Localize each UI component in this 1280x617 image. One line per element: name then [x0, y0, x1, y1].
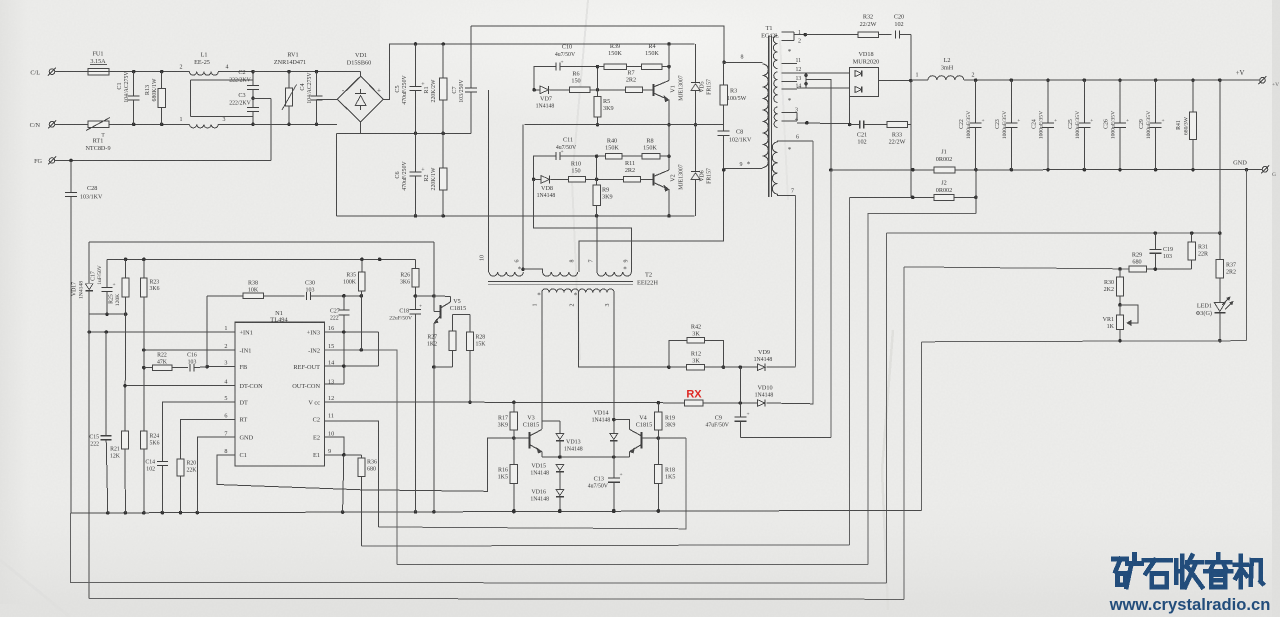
T1 pin7 lead: [778, 194, 796, 195]
capacitor C30: [263, 295, 304, 297]
fuse FU1: [88, 68, 109, 75]
transistor V2 MJE13007: [653, 174, 655, 186]
diode VD5 FR157: [695, 44, 697, 83]
capacitor C23: [1010, 80, 1012, 123]
capacitor C18: [414, 296, 416, 310]
wire mid bus: [336, 132, 470, 134]
wire left drop to bottom bus: [335, 133, 337, 216]
diode VD17: [88, 242, 90, 283]
resistor R9: [593, 185, 600, 205]
terminal AC/L: [49, 69, 55, 75]
wire L line right: [253, 71, 361, 73]
resistor R42 loop: [669, 340, 687, 367]
wire pins 3-4 to snubber: [797, 122, 850, 125]
wire y314 link: [89, 313, 125, 315]
T1 secondary winding 1-2: [773, 35, 777, 68]
wire Vcc RX line: [324, 401, 514, 403]
wire T1 pin6 drop to VD10: [812, 141, 814, 405]
wire bottom right return y341: [921, 341, 1246, 342]
resistor R16: [513, 438, 515, 465]
diode VD6 FR157: [695, 125, 697, 172]
resistor R21: [122, 431, 129, 449]
diode VD7: [532, 88, 536, 92]
resistor R37: [1216, 260, 1223, 278]
capacitor C29: [1155, 80, 1157, 123]
resistor R41: [1192, 80, 1194, 112]
wire pin10 E2: [324, 437, 343, 455]
resistor R38: [207, 295, 243, 297]
wire emitter rail: [542, 456, 630, 458]
wire T2 pin7 to emitter bus: [596, 216, 598, 272]
capacitor C15: [105, 332, 107, 436]
capacitor C13: [613, 457, 615, 478]
resistor R19: [657, 403, 659, 412]
resistor R13: [161, 72, 163, 89]
T1 pin6 lead: [778, 141, 813, 142]
capacitor C27: [343, 296, 345, 310]
resistor R24: [140, 431, 147, 449]
wire pin9 E1: [324, 454, 361, 456]
T2 primary winding 7-9: [597, 272, 631, 276]
resistor R1: [442, 44, 444, 78]
wire sense line y269: [904, 267, 1129, 269]
wire pin4 DT-CON: [125, 385, 235, 387]
capacitor C4: [316, 72, 318, 96]
resistor R31: [1191, 233, 1193, 242]
thermistor RT1: [88, 121, 109, 128]
wire supply drop to V5 node: [433, 242, 435, 296]
snubber C20: [879, 34, 892, 36]
snubber C21: [859, 121, 861, 129]
capacitor C14: [157, 461, 168, 463]
resistor R18: [657, 438, 659, 465]
T1 core: [768, 35, 770, 197]
resistor R10: [569, 177, 586, 183]
capacitor C8: [723, 105, 725, 131]
diode VD8: [532, 178, 536, 182]
wire pin14 REF-OUT: [324, 365, 378, 367]
wire VD8 wrap to T2 pin9: [534, 179, 632, 271]
wire bridge bottom to mid bus: [360, 122, 362, 133]
wire T1 pin7 drop to VD9: [795, 195, 797, 366]
wire H ground riser: [920, 342, 922, 511]
terminal AC/N: [49, 122, 55, 128]
watermark crystalradio logo (vector hanzi): [1114, 557, 1127, 562]
resistor R36: [361, 455, 363, 458]
resistor R26: [415, 259, 417, 268]
wire C2 from TL494: [324, 421, 378, 527]
wire right edge riser: [1246, 170, 1248, 341]
capacitor C6: [415, 133, 417, 172]
capacitor C28: [70, 161, 72, 193]
wire bottom bus: [336, 215, 694, 217]
T1 pin8 lead: [724, 61, 763, 63]
T1 secondary winding 3-4: [774, 107, 777, 127]
wire L line: [109, 71, 190, 73]
resistor RX: [685, 400, 703, 406]
diode VD13: [559, 421, 561, 433]
wire T2 pin10 riser: [488, 90, 490, 272]
diode VD10: [757, 400, 765, 407]
wire C2 drive loop: [379, 438, 686, 529]
wire R35 node to -IN2: [360, 296, 362, 350]
wire E line -IN2 loop: [397, 563, 868, 565]
wire vertical junction R40 R9: [596, 156, 598, 185]
wire E1 to ground: [343, 455, 344, 512]
wire vertical junction R39 R5: [597, 67, 599, 97]
wire R12 to VD9: [723, 366, 757, 368]
wire half bridge midpoint bus: [524, 124, 723, 126]
wire N line right: [253, 123, 337, 125]
LED1: [1219, 278, 1221, 303]
terminal GND: [1262, 167, 1268, 173]
wire C20 drop to output node: [910, 35, 912, 81]
wire R25 column to R21: [124, 314, 127, 431]
capacitor C7: [470, 26, 472, 88]
wire bridge plus to top bus: [383, 44, 694, 99]
wire pin8 C1 wrap: [217, 438, 514, 491]
terminal +V: [1260, 77, 1266, 83]
T2 secondary winding: [542, 289, 579, 293]
capacitor C3: [252, 98, 254, 107]
wire D line J2-left loop: [362, 545, 850, 546]
wire C2C3 mid to FG riser: [253, 97, 271, 99]
wire +V bus: [964, 79, 1260, 81]
wire C28 ground drop: [70, 197, 72, 514]
IC N1 TL494 box: [235, 322, 324, 466]
wire pin2 -IN1: [144, 349, 235, 351]
capacitor C24: [1047, 80, 1049, 123]
resistor R4: [642, 64, 662, 70]
resistor R12: [687, 364, 705, 370]
wire V5 emitter to ground: [433, 367, 435, 512]
capacitor C19: [1154, 233, 1156, 249]
T2 primary winding 10-6: [489, 272, 523, 276]
T2 core: [488, 281, 633, 283]
capacitor C2: [252, 72, 254, 86]
wire L1 to C2C3 box: [190, 80, 192, 116]
wire R6 to junction: [590, 89, 626, 91]
wire R36 column to D line: [361, 490, 363, 546]
capacitor C9: [739, 367, 741, 417]
wire sense line y233: [887, 232, 1220, 234]
T2 primary winding mid: [543, 272, 578, 276]
wire F drop from y233: [886, 233, 888, 583]
wire T2 sec pin3 to VD14: [613, 293, 615, 434]
resistor R3: [723, 62, 725, 85]
resistor R23: [143, 259, 145, 278]
wire center tap down: [806, 80, 831, 170]
snubber R33: [887, 122, 908, 128]
wire +V sense drop: [1219, 80, 1221, 259]
wire J2 right link: [975, 170, 977, 214]
wire pin5 DT: [162, 402, 235, 462]
resistor R28: [452, 313, 470, 315]
capacitor C5: [415, 44, 417, 86]
wire G drop from y267: [903, 267, 905, 599]
resistor R30: [1119, 269, 1121, 277]
wire T2 sec pin1 to V3 collector: [541, 293, 543, 430]
wire FG line: [55, 160, 271, 162]
wire pins 1-2 to R32 line: [794, 34, 805, 36]
terminal FG: [49, 158, 55, 164]
T1 primary winding: [763, 64, 769, 168]
wire C8 node to T1 pin9: [724, 168, 763, 170]
wire main ground bus: [71, 510, 921, 513]
wire y259 line: [107, 258, 416, 260]
resistor R17: [513, 402, 515, 412]
wire V4 base to C2 drop: [658, 437, 686, 439]
wire C27 col ties: [342, 330, 346, 334]
capacitor C17: [106, 259, 108, 287]
resistor R7: [626, 87, 643, 93]
wire pin13 to pin14 riser: [343, 315, 345, 384]
resistor R6: [570, 87, 590, 93]
shunt J2: [850, 196, 935, 198]
resistor R11: [624, 177, 641, 183]
wire pin3 FB: [207, 366, 235, 368]
resistor R35: [361, 259, 363, 272]
resistor R29: [1129, 266, 1147, 272]
capacitor C22: [975, 80, 977, 123]
T1 secondary winding 11-14: [774, 72, 778, 102]
T1 secondary winding 6-7: [772, 142, 777, 194]
wire VD17 supply line y242: [89, 241, 434, 243]
resistor R22 and C16: [144, 367, 153, 369]
wire R23 column: [143, 297, 145, 431]
wire pin7 GND: [197, 437, 235, 512]
wire pin15 -IN2: [324, 350, 397, 565]
transistor V1 MJE13007: [653, 84, 655, 96]
wire top rail y26: [471, 26, 724, 62]
wire pin1 +IN1: [89, 331, 235, 333]
diode VD9: [757, 364, 765, 371]
shunt J1: [934, 167, 955, 173]
wire G line sense loop: [89, 598, 904, 599]
wire GND bus: [831, 169, 1262, 172]
wire VD18 left column: [849, 97, 851, 125]
wire FB riser to R38 line: [206, 296, 208, 367]
wire bridge AC left: [317, 98, 338, 100]
resistor R20: [177, 459, 184, 476]
wire V3 collector to VD13: [542, 420, 560, 422]
diode VD16: [556, 490, 564, 496]
wire N line: [109, 123, 190, 125]
wire pin13 OUT-CON: [324, 383, 343, 385]
wire F line FG loop: [71, 513, 887, 583]
wire VD17 column sense riser: [88, 314, 90, 598]
wire T2 pin6 link to second winding: [523, 269, 543, 272]
wire winding taps to VD18: [797, 72, 850, 74]
capacitor C25: [1083, 80, 1085, 123]
wire pin6 RT: [181, 419, 236, 459]
snubber R32: [805, 34, 858, 36]
wire J2 left drop: [849, 197, 851, 545]
wire T2 pin8 to C8 node: [579, 170, 724, 272]
wire T2 sec pin2 to R12 line: [579, 293, 669, 368]
wire C9 bottom line: [740, 436, 831, 438]
capacitor C26: [1119, 80, 1121, 123]
diode VD14: [610, 434, 618, 440]
resistor R27: [451, 314, 453, 331]
wire center tap drop to C9 line: [830, 170, 832, 437]
potentiometer VR1: [1116, 315, 1123, 330]
resistor R8: [642, 153, 660, 159]
resistor R2: [442, 133, 444, 168]
resistor R40: [605, 153, 622, 159]
wire snubber riser to output node and J line: [910, 81, 912, 198]
resistor R39: [604, 64, 626, 70]
wire VD18 output: [879, 80, 911, 82]
wire R26 node to V5 base node: [415, 295, 450, 297]
capacitor C1: [133, 72, 135, 96]
wire bridge AC top from L: [360, 72, 362, 77]
wire J2 loop down: [868, 214, 976, 565]
resistor R25: [125, 259, 127, 278]
wire pin16 +IN3: [324, 331, 378, 333]
wire T2 pin6 riser: [522, 125, 524, 270]
wire pin16-14 tie: [377, 332, 379, 366]
diode VD15: [556, 465, 564, 471]
resistor R5: [594, 97, 601, 118]
